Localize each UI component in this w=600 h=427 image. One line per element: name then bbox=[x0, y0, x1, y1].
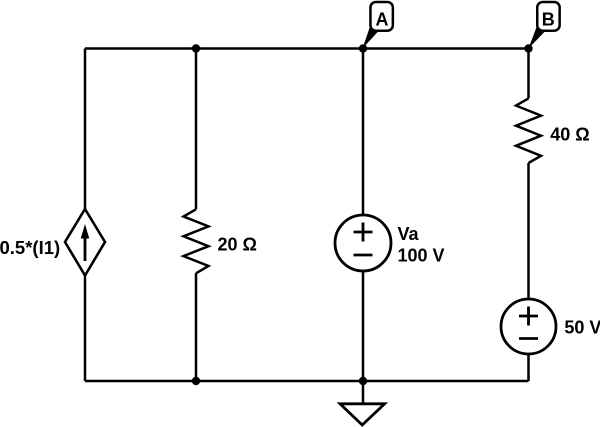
junction dot top 20ohm branch bbox=[192, 44, 200, 52]
svg-text:Va: Va bbox=[398, 224, 420, 244]
wire top horizontal bbox=[85, 47, 529, 50]
wire ground stub bbox=[362, 381, 365, 404]
wire right branch upper bbox=[527, 49, 530, 99]
junction dot node B bbox=[524, 44, 532, 52]
resistor R2 40ohm bbox=[516, 98, 541, 163]
voltage source V2 50V bbox=[501, 299, 556, 354]
dependent current source F1 0.5*(I1) bbox=[65, 209, 105, 276]
junction dot bottom 20ohm branch bbox=[192, 377, 200, 385]
wire 20ohm branch lower bbox=[195, 273, 198, 381]
svg-text:50 V: 50 V bbox=[564, 317, 600, 337]
wire right branch lower bbox=[527, 354, 530, 381]
wire 20ohm branch upper bbox=[195, 49, 198, 210]
node B flag bbox=[529, 2, 560, 49]
node A flag bbox=[363, 2, 393, 49]
svg-text:A: A bbox=[376, 10, 389, 30]
junction dot node A bbox=[359, 44, 367, 52]
wire bottom horizontal bbox=[85, 380, 529, 383]
resistor R1 20ohm bbox=[184, 209, 209, 273]
voltage source V1 Va 100V bbox=[335, 215, 391, 271]
wire right branch middle bbox=[527, 163, 530, 299]
wire left vertical lower bbox=[84, 276, 87, 382]
wire left vertical upper bbox=[84, 49, 87, 210]
wire Va branch upper bbox=[362, 49, 365, 216]
ground bbox=[340, 404, 385, 425]
svg-text:20 Ω: 20 Ω bbox=[218, 235, 257, 255]
svg-text:B: B bbox=[542, 10, 555, 30]
junction dot bottom ground bbox=[359, 377, 367, 385]
svg-text:100 V: 100 V bbox=[398, 246, 445, 266]
svg-text:0.5*(I1): 0.5*(I1) bbox=[0, 237, 60, 258]
wire Va branch lower bbox=[362, 271, 365, 381]
svg-text:40 Ω: 40 Ω bbox=[550, 125, 589, 145]
